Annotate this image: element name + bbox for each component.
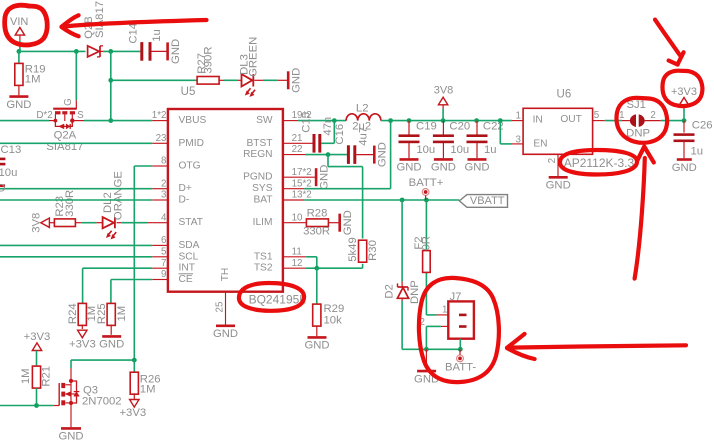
svg-text:GND: GND xyxy=(304,340,329,352)
svg-text:BATT+: BATT+ xyxy=(409,177,444,189)
svg-text:BTST: BTST xyxy=(246,138,272,149)
svg-text:+3V3: +3V3 xyxy=(119,407,146,419)
svg-text:+3V3: +3V3 xyxy=(24,331,51,343)
svg-text:2: 2 xyxy=(650,110,655,121)
svg-text:1M: 1M xyxy=(25,73,41,85)
svg-text:IN: IN xyxy=(533,114,543,125)
svg-text:4: 4 xyxy=(161,212,167,223)
svg-text:R28: R28 xyxy=(307,208,328,220)
svg-text:D-: D- xyxy=(179,195,190,206)
svg-text:C16: C16 xyxy=(334,124,346,145)
svg-text:OUT: OUT xyxy=(560,114,582,125)
svg-text:C19: C19 xyxy=(416,120,437,132)
svg-text:5k49: 5k49 xyxy=(347,237,359,262)
svg-text:1: 1 xyxy=(619,110,624,121)
svg-text:VBATT: VBATT xyxy=(470,195,505,207)
svg-text:12: 12 xyxy=(292,258,303,269)
svg-text:C14: C14 xyxy=(128,23,140,44)
svg-text:D2: D2 xyxy=(384,284,396,298)
svg-text:1M: 1M xyxy=(140,383,156,395)
svg-text:GND: GND xyxy=(546,180,571,192)
svg-text:INT: INT xyxy=(179,263,195,274)
svg-text:21: 21 xyxy=(292,133,303,144)
svg-text:L2: L2 xyxy=(356,102,369,114)
svg-text:J7: J7 xyxy=(450,291,462,303)
svg-text:22: 22 xyxy=(292,144,303,155)
svg-text:25: 25 xyxy=(215,301,226,312)
svg-text:1: 1 xyxy=(516,110,521,121)
svg-text:D+: D+ xyxy=(179,183,192,194)
svg-text:10k: 10k xyxy=(324,315,343,327)
svg-text:GREEN: GREEN xyxy=(248,37,260,77)
svg-text:1M: 1M xyxy=(20,368,32,384)
svg-text:330R: 330R xyxy=(64,190,76,217)
svg-text:C13: C13 xyxy=(1,144,22,156)
svg-text:PGND: PGND xyxy=(243,172,272,183)
svg-text:C20: C20 xyxy=(449,120,470,132)
svg-text:S: S xyxy=(77,110,84,121)
svg-text:SDA: SDA xyxy=(179,240,200,251)
svg-text:VIN: VIN xyxy=(10,16,28,28)
svg-text:1u: 1u xyxy=(484,144,497,156)
svg-text:STAT: STAT xyxy=(179,217,204,228)
svg-text:R24: R24 xyxy=(67,303,79,324)
svg-text:5: 5 xyxy=(594,110,600,121)
svg-text:U5: U5 xyxy=(181,86,196,98)
svg-text:330R: 330R xyxy=(303,226,330,238)
svg-text:1u: 1u xyxy=(691,146,704,158)
svg-text:7: 7 xyxy=(161,258,166,269)
svg-text:DNP: DNP xyxy=(409,280,421,304)
svg-text:17*2: 17*2 xyxy=(292,167,312,178)
svg-text:R21: R21 xyxy=(41,366,53,387)
svg-text:GND: GND xyxy=(377,142,389,167)
svg-text:GND: GND xyxy=(318,165,330,190)
svg-text:3: 3 xyxy=(516,135,522,146)
svg-text:3: 3 xyxy=(161,190,167,201)
svg-text:GND: GND xyxy=(213,328,238,340)
svg-text:TS2: TS2 xyxy=(254,263,273,274)
svg-text:OTG: OTG xyxy=(179,161,201,172)
svg-text:11: 11 xyxy=(292,246,302,257)
svg-text:5: 5 xyxy=(161,246,167,257)
svg-text:C26: C26 xyxy=(692,120,713,132)
svg-text:SCL: SCL xyxy=(179,251,199,262)
svg-text:9: 9 xyxy=(161,269,166,280)
svg-text:GND: GND xyxy=(396,162,421,174)
svg-text:2N7002: 2N7002 xyxy=(82,396,122,408)
svg-text:BAT: BAT xyxy=(253,195,272,206)
svg-text:G: G xyxy=(63,98,74,106)
svg-text:PMID: PMID xyxy=(179,138,204,149)
svg-text:U6: U6 xyxy=(557,89,572,101)
svg-text:R30: R30 xyxy=(367,240,379,261)
svg-text:BATT-: BATT- xyxy=(445,361,476,373)
svg-text:D*2: D*2 xyxy=(36,110,52,121)
svg-text:GND: GND xyxy=(291,68,303,93)
svg-text:3V8: 3V8 xyxy=(434,85,454,97)
svg-text:REGN: REGN xyxy=(243,149,272,160)
svg-text:47n: 47n xyxy=(322,117,334,136)
svg-text:GND: GND xyxy=(6,99,31,111)
svg-text:10u: 10u xyxy=(0,167,17,179)
svg-text:VBUS: VBUS xyxy=(179,115,207,126)
svg-text:2: 2 xyxy=(547,158,558,163)
svg-text:GND: GND xyxy=(464,162,489,174)
svg-text:1*2: 1*2 xyxy=(152,110,167,121)
svg-text:390R: 390R xyxy=(203,46,215,73)
svg-text:SIA817: SIA817 xyxy=(94,1,106,38)
svg-text:0R: 0R xyxy=(421,236,433,250)
svg-text:GND: GND xyxy=(342,210,354,235)
svg-text:TS1: TS1 xyxy=(254,251,273,262)
svg-text:CE: CE xyxy=(179,274,193,285)
svg-text:GND: GND xyxy=(58,431,83,443)
svg-text:R29: R29 xyxy=(324,303,345,315)
svg-text:GND: GND xyxy=(0,183,6,195)
svg-text:10u: 10u xyxy=(450,144,469,156)
svg-text:10: 10 xyxy=(292,212,303,223)
svg-text:23: 23 xyxy=(156,133,167,144)
svg-text:13*2: 13*2 xyxy=(292,190,312,201)
svg-text:SYS: SYS xyxy=(252,183,273,194)
svg-text:+3V3: +3V3 xyxy=(69,338,96,350)
svg-text:GND: GND xyxy=(170,39,182,64)
svg-text:ILIM: ILIM xyxy=(253,217,273,228)
svg-text:10u: 10u xyxy=(416,144,435,156)
svg-text:1u: 1u xyxy=(151,29,163,42)
svg-text:8: 8 xyxy=(161,156,167,167)
svg-text:AP2112K-3.3: AP2112K-3.3 xyxy=(564,156,635,170)
svg-text:1: 1 xyxy=(442,305,447,316)
svg-text:Q2A: Q2A xyxy=(54,130,77,142)
svg-text:GND: GND xyxy=(99,339,124,351)
svg-text:TH: TH xyxy=(220,268,231,282)
svg-text:R25: R25 xyxy=(96,303,108,324)
svg-text:2: 2 xyxy=(161,178,166,189)
svg-text:6: 6 xyxy=(161,235,167,246)
svg-text:1M: 1M xyxy=(116,306,128,322)
svg-text:C15: C15 xyxy=(300,112,312,133)
svg-text:EN: EN xyxy=(533,138,547,149)
svg-text:3V8: 3V8 xyxy=(30,213,42,233)
svg-text:15*2: 15*2 xyxy=(292,178,312,189)
svg-text:SW: SW xyxy=(256,115,273,126)
svg-text:4u7: 4u7 xyxy=(357,127,369,146)
svg-text:Q3: Q3 xyxy=(83,384,98,396)
svg-text:GND: GND xyxy=(431,162,456,174)
svg-text:ORANGE: ORANGE xyxy=(113,171,125,220)
svg-text:GND: GND xyxy=(672,162,697,174)
